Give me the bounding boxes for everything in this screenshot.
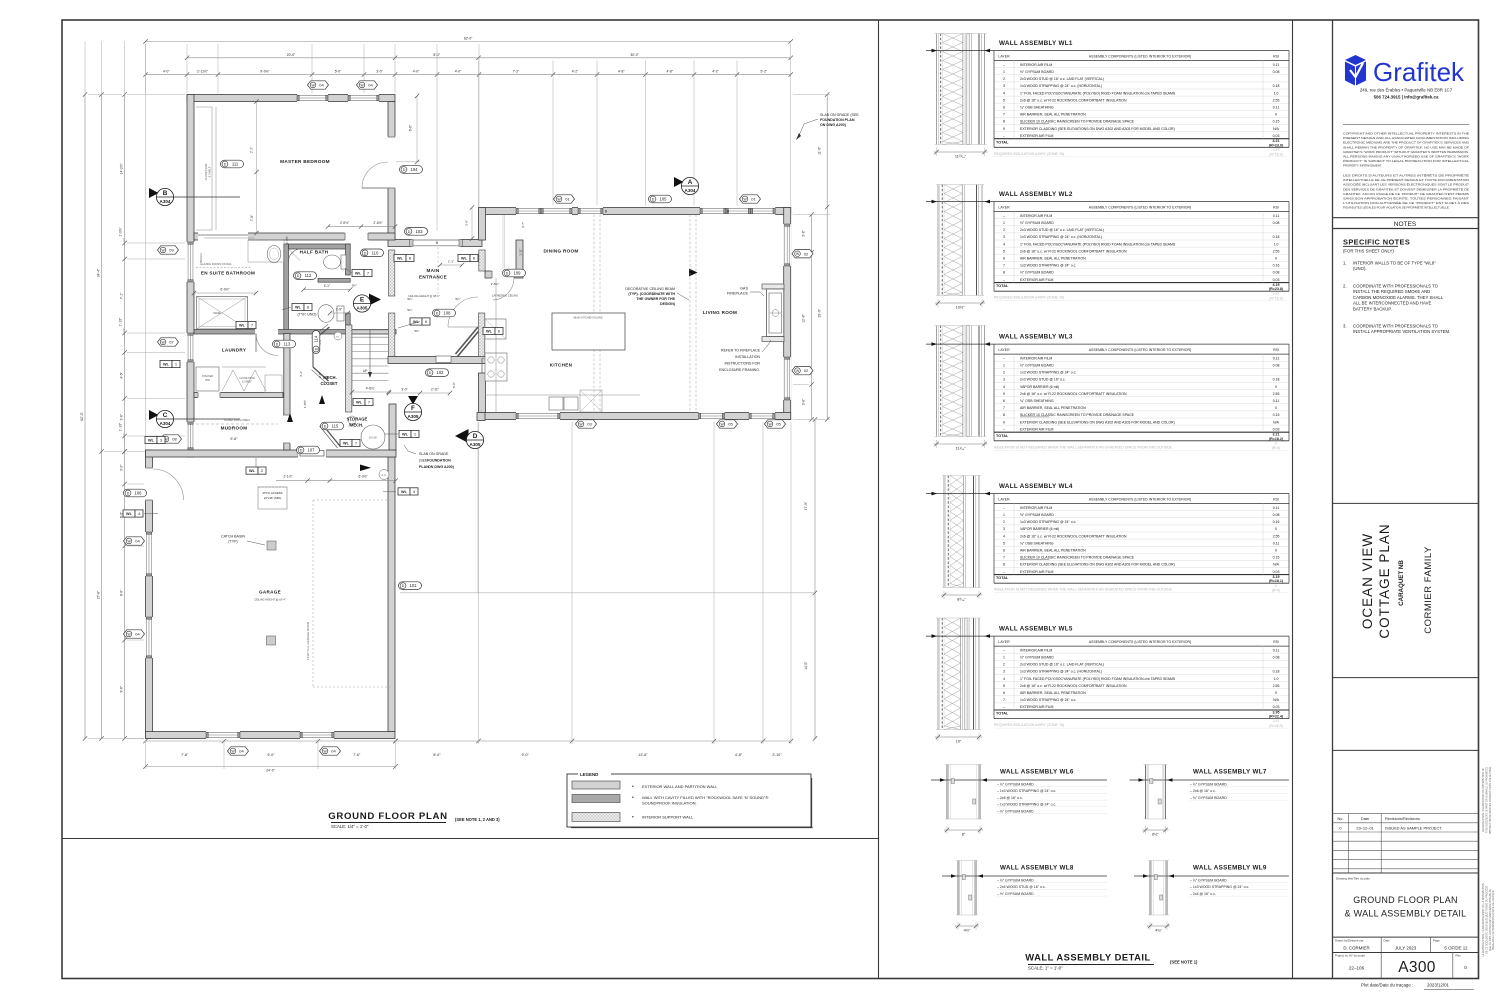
svg-text:ALL PERSONS MAKING ANY UNAUTHO: ALL PERSONS MAKING ANY UNAUTHORIZED USE … (1343, 155, 1469, 159)
sliding glazing door opening (198, 233, 248, 241)
svg-text:– ½" GYPSUM BOARD: – ½" GYPSUM BOARD (997, 879, 1034, 883)
svg-text:7: 7 (1003, 406, 1005, 410)
svg-text:CATCH BASIN: CATCH BASIN (221, 535, 245, 539)
storage bottom wall right portion (389, 404, 396, 450)
right dimension tier 17/14 (814, 420, 816, 739)
svg-text:0.11: 0.11 (1273, 399, 1280, 403)
svg-text:0.18: 0.18 (1273, 235, 1280, 239)
laundry sink (265, 375, 282, 393)
svg-text:9'-0½": 9'-0½" (260, 70, 270, 74)
svg-text:ASSEMBLY COMPONENTS (LISTED IN: ASSEMBLY COMPONENTS (LISTED INTERIOR TO … (1089, 206, 1191, 210)
title block rule above copyright (1343, 124, 1469, 126)
svg-text:4¾": 4¾" (1155, 929, 1162, 933)
svg-text:EXTERIOR AIR FILM: EXTERIOR AIR FILM (1020, 134, 1054, 138)
svg-text:2'-1½": 2'-1½" (283, 475, 292, 479)
svg-text:101: 101 (410, 583, 418, 588)
door tag D114 (312, 331, 320, 354)
svg-text:WALL ASSEMBLY WL3: WALL ASSEMBLY WL3 (999, 334, 1073, 341)
svg-text:6: 6 (1003, 549, 1005, 553)
svg-text:½" GYPSUM BOARD: ½" GYPSUM BOARD (1020, 656, 1054, 660)
svg-text:2x6 @ 16" o.c. w/ R-22 ROCKWOO: 2x6 @ 16" o.c. w/ R-22 ROCKWOOL COMFORTB… (1020, 684, 1127, 688)
svg-text:1: 1 (1003, 513, 1005, 517)
left dimension tier 62ft vertical (84, 95, 86, 739)
svg-text:Date: Date (1384, 938, 1390, 942)
svg-text:P.T.: P.T. (336, 336, 340, 338)
stair right hatched wall (389, 313, 395, 357)
svg-text:ON DWG A200): ON DWG A200) (428, 465, 455, 469)
svg-text:SPECIFIC NOTES: SPECIFIC NOTES (1343, 238, 1410, 247)
svg-text:LAYER: LAYER (998, 55, 1010, 59)
svg-text:D: D (408, 230, 411, 234)
svg-text:17'-0": 17'-0" (804, 501, 808, 510)
kitchen fridge (485, 319, 506, 339)
window tag W04 bottom 2 (320, 747, 341, 755)
svg-text:(TYP, UNO): (TYP, UNO) (298, 313, 317, 317)
svg-text:4: 4 (1003, 677, 1005, 681)
svg-text:INSULATION IS NOT REQUIRED WHE: INSULATION IS NOT REQUIRED WHEN THE WALL… (994, 445, 1173, 449)
wall tag WL7 en suite (236, 321, 248, 328)
svg-text:04: 04 (135, 632, 140, 637)
svg-text:5: 5 (1003, 249, 1005, 253)
svg-text:F: F (411, 405, 415, 412)
svg-text:A: A (688, 179, 693, 186)
svg-text:WL: WL (397, 257, 404, 261)
stair up arrow (369, 330, 371, 376)
mech closet chamfer walls (313, 327, 330, 341)
kitchen counter line (495, 278, 497, 412)
svg-text:1.0: 1.0 (1274, 91, 1279, 95)
svg-text:04: 04 (135, 539, 140, 544)
svg-text:No.: No. (1337, 816, 1343, 821)
svg-text:3: 3 (1003, 235, 1005, 239)
svg-text:ENCLOSURE FRAMING.: ENCLOSURE FRAMING. (719, 368, 760, 372)
svg-text:D.H.W.: D.H.W. (369, 436, 377, 440)
title block section line revisions top (1333, 749, 1479, 751)
svg-text:104: 104 (411, 167, 419, 172)
svg-text:INTERIOR WALLS TO BE OF TYPE ": INTERIOR WALLS TO BE OF TYPE "WL8" (1353, 261, 1436, 266)
svg-text:0.15: 0.15 (1273, 556, 1280, 560)
svg-text:(FOR THIS SHEET ONLY): (FOR THIS SHEET ONLY) (1343, 249, 1394, 254)
window tag W01 right (740, 195, 761, 203)
svg-text:A304: A304 (685, 188, 696, 193)
door tag D115 (321, 422, 344, 430)
svg-text:(R=18.2): (R=18.2) (1269, 437, 1284, 441)
svg-text:ISSUED AS SAMPLE PROJECT: ISSUED AS SAMPLE PROJECT (1385, 825, 1442, 830)
svg-text:INTERIOR AIR FILM: INTERIOR AIR FILM (1020, 63, 1052, 67)
garage left wall (146, 450, 153, 739)
svg-text:2.97: 2.97 (1273, 292, 1280, 296)
svg-text:N/A: N/A (1273, 420, 1280, 424)
gas fireplace (762, 284, 784, 289)
svg-text:CATHEDRAL CEILING: CATHEDRAL CEILING (492, 294, 519, 298)
svg-text:– ½" GYPSUM BOARD: – ½" GYPSUM BOARD (997, 783, 1034, 787)
notes band (1333, 217, 1479, 219)
svg-text:24'-0": 24'-0" (266, 769, 275, 773)
dim mudroom bottom (276, 480, 396, 482)
svg-text:0.08: 0.08 (1273, 364, 1280, 368)
svg-text:CLOSET ROD: CLOSET ROD (204, 163, 208, 180)
window tag W04 left 1 (124, 537, 145, 545)
svg-text:–: – (1003, 356, 1005, 360)
svg-text:0: 0 (1275, 584, 1277, 588)
svg-text:VAPOR BARRIER (6 mil): VAPOR BARRIER (6 mil) (1020, 527, 1059, 531)
svg-text:(R=23.9): (R=23.9) (1269, 143, 1284, 147)
svg-text:0.11: 0.11 (1273, 214, 1280, 218)
wall assembly WL2 section drawing (937, 185, 939, 296)
svg-text:GLAZING DOORS ON RAIL: GLAZING DOORS ON RAIL (200, 263, 232, 266)
svg-text:BATTERY BACKUP.: BATTERY BACKUP. (1353, 306, 1392, 311)
half bath toilet (341, 255, 346, 269)
svg-text:THE OWNER FOR THE: THE OWNER FOR THE (636, 297, 675, 301)
svg-text:103: 103 (416, 229, 424, 234)
wall tag WL4 garage left (123, 510, 135, 517)
door tag D105 (649, 195, 672, 203)
svg-text:TOTAL: TOTAL (996, 434, 1009, 438)
svg-text:(R=23.8): (R=23.8) (1269, 287, 1284, 291)
svg-text:(R=16.9): (R=16.9) (1269, 153, 1282, 157)
dining closet right wall (516, 240, 523, 271)
svg-text:WALL ASSEMBLY WL4: WALL ASSEMBLY WL4 (999, 483, 1073, 490)
en suite tub 60x36 (197, 297, 248, 330)
svg-text:2x6 @ 16" o.c. w/ R-22 ROCKWOO: 2x6 @ 16" o.c. w/ R-22 ROCKWOOL COMFORTB… (1020, 98, 1127, 102)
svg-text:03: 03 (587, 422, 592, 427)
door D107 opening mudroom (298, 450, 327, 458)
window W03 kitchen sink (516, 412, 560, 420)
svg-text:0.03: 0.03 (1273, 570, 1280, 574)
svg-text:RSI: RSI (1273, 498, 1279, 502)
svg-text:1x3 WOOD STRAPPING @ 24" o.c.: 1x3 WOOD STRAPPING @ 24" o.c. (1020, 698, 1076, 702)
wall tag WL6 stairs (410, 318, 422, 325)
svg-text:PRÉALABLE L’AUTORISATION ÉCRIT: PRÉALABLE L’AUTORISATION ÉCRITE DE L’AUT… (1492, 889, 1495, 950)
svg-text:STACKED: STACKED (202, 375, 214, 378)
svg-text:04: 04 (239, 749, 244, 754)
garage window W04 bottom 2 (300, 731, 334, 739)
svg-text:WL: WL (486, 330, 493, 334)
svg-text:0.18: 0.18 (1273, 84, 1280, 88)
svg-text:GARAGE: GARAGE (259, 590, 281, 595)
svg-text:(SEE NOTE 1): (SEE NOTE 1) (1170, 960, 1198, 965)
svg-text:0.11: 0.11 (1273, 648, 1280, 652)
svg-text:ASSEMBLY COMPONENTS (LISTED IN: ASSEMBLY COMPONENTS (LISTED INTERIOR TO … (1089, 640, 1191, 644)
svg-text:EXTERIOR CLADDING (SEE ELEVATI: EXTERIOR CLADDING (SEE ELEVATIONS ON DWG… (1020, 563, 1175, 567)
svg-text:CORMIER FAMILY: CORMIER FAMILY (1423, 546, 1434, 634)
svg-text:Date: Date (1361, 816, 1369, 821)
svg-text:13'-6": 13'-6" (638, 753, 648, 757)
svg-text:½" GYPSUM BOARD: ½" GYPSUM BOARD (1020, 70, 1054, 74)
master closet shelves (211, 107, 213, 230)
window tag W01 left (554, 195, 575, 203)
svg-text:0: 0 (1275, 527, 1277, 531)
svg-text:2.55: 2.55 (1273, 392, 1280, 396)
svg-text:(R=18.1): (R=18.1) (1269, 579, 1284, 583)
svg-text:REQUIRED INSULATION w/HRV (ZON: REQUIRED INSULATION w/HRV (ZONE 7A) (994, 723, 1064, 727)
svg-text:WL: WL (356, 401, 363, 405)
svg-text:6'-6": 6'-6" (409, 124, 413, 131)
svg-text:1'-3⅝": 1'-3⅝" (119, 227, 123, 237)
svg-text:EXTERIOR AIR FILM: EXTERIOR AIR FILM (1020, 570, 1054, 574)
svg-text:CEILING HEIGHT @ ±9'-4": CEILING HEIGHT @ ±9'-4" (254, 598, 286, 602)
svg-text:CEILING HEIGHT @ 68'-0": CEILING HEIGHT @ 68'-0" (408, 294, 440, 298)
svg-text:1'-5¾": 1'-5¾" (491, 282, 499, 286)
half bath right wall dark (346, 244, 351, 275)
svg-text:D: D (127, 492, 130, 496)
svg-text:0.08: 0.08 (1273, 271, 1280, 275)
svg-text:RSI: RSI (1273, 206, 1279, 210)
svg-text:(R=16.9): (R=16.9) (1269, 724, 1282, 728)
svg-text:LAYER: LAYER (998, 206, 1010, 210)
svg-text:0.15: 0.15 (1273, 120, 1280, 124)
svg-text:INSTALL APPROPRIATE VENTILATIO: INSTALL APPROPRIATE VENTILATION SYSTEM. (1353, 329, 1450, 334)
half bath top wall dark (289, 244, 351, 249)
svg-text:EXTERIOR CLADDING (SEE ELEVATI: EXTERIOR CLADDING (SEE ELEVATIONS ON DWG… (1020, 420, 1175, 424)
svg-text:0.08: 0.08 (1273, 221, 1280, 225)
svg-text:– 2x6 @ 16" o.c.: – 2x6 @ 16" o.c. (997, 796, 1023, 800)
svg-text:106: 106 (135, 491, 143, 496)
svg-text:2.55: 2.55 (1273, 534, 1280, 538)
revisions table (1333, 813, 1479, 815)
svg-text:WL: WL (126, 512, 133, 516)
svg-text:INTERIOR AIR FILM: INTERIOR AIR FILM (1020, 648, 1052, 652)
svg-text:62'-0": 62'-0" (464, 37, 473, 41)
svg-text:PROPERTY INFRINGEMENT.: PROPERTY INFRINGEMENT. (1343, 164, 1382, 168)
svg-text:D: D (473, 433, 478, 440)
svg-text:•: • (632, 784, 634, 790)
svg-text:107: 107 (308, 448, 316, 453)
svg-text:0: 0 (1275, 406, 1277, 410)
entrance top wall west segment (388, 240, 411, 247)
svg-text:B: B (163, 190, 168, 197)
door tag D103 (405, 228, 428, 236)
svg-text:3: 3 (1003, 378, 1005, 382)
stair hatched wall (346, 325, 352, 412)
drawn by box (1333, 936, 1479, 938)
svg-text:(R=0): (R=0) (1272, 588, 1281, 592)
svg-text:Project no./N° du projet: Project no./N° du projet (1335, 954, 1365, 958)
svg-text:DESIGN): DESIGN) (660, 302, 676, 306)
svg-text:2: 2 (1003, 520, 1005, 524)
svg-text:GRAFITEK'S “WORK PRODUCT” WITH: GRAFITEK'S “WORK PRODUCT” WITHOUT GRAFIT… (1343, 150, 1469, 154)
window W08 left wall (187, 422, 195, 450)
svg-text:EXTERIOR CLADDING (SEE ELEVATI: EXTERIOR CLADDING (SEE ELEVATIONS ON DWG… (1020, 127, 1175, 131)
svg-text:3'-0": 3'-0" (465, 220, 469, 226)
left dimension tier garage side (124, 452, 126, 739)
catch basin square 2 (267, 636, 276, 645)
svg-text:EXTERIOR AIR FILM: EXTERIOR AIR FILM (1020, 705, 1054, 709)
svg-text:SANS SON APPROBATION ÉCRITE. T: SANS SON APPROBATION ÉCRITE. TOUTES PERS… (1343, 196, 1469, 201)
svg-text:RSI: RSI (1273, 55, 1279, 59)
svg-text:LAUNDRY: LAUNDRY (222, 348, 246, 353)
svg-text:N/A: N/A (1273, 698, 1280, 702)
wall assembly WL4 section drawing (943, 476, 945, 588)
svg-text:Drawn by/Dessiné par: Drawn by/Dessiné par (1335, 938, 1363, 942)
svg-text:SLICKER 10 CLASSIC RAINSCREEN: SLICKER 10 CLASSIC RAINSCREEN TO PROVIDE… (1020, 413, 1135, 417)
svg-text:Plot date/Date du traçage :: Plot date/Date du traçage : (1361, 983, 1413, 988)
svg-text:–: – (1003, 214, 1005, 218)
svg-text:115: 115 (332, 424, 339, 429)
windows W01 left group (516, 207, 541, 215)
svg-text:5'-0": 5'-0" (335, 70, 342, 74)
svg-text:2'-10": 2'-10" (772, 753, 782, 757)
svg-text:3: 3 (1003, 670, 1005, 674)
kitchen sink (549, 397, 563, 410)
svg-text:1'-10": 1'-10" (119, 422, 123, 431)
svg-text:AIR BARRIER, SEAL ALL PENETRAT: AIR BARRIER, SEAL ALL PENETRATION (1020, 406, 1086, 410)
svg-text:ASSEMBLY COMPONENTS (LISTED IN: ASSEMBLY COMPONENTS (LISTED INTERIOR TO … (1089, 498, 1191, 502)
svg-text:EXTERIOR AIR FILM: EXTERIOR AIR FILM (1020, 427, 1054, 431)
svg-text:½" GYPSUM BOARD: ½" GYPSUM BOARD (1020, 364, 1054, 368)
entry west wall hatched (389, 250, 395, 296)
svg-text:ENTRANCE: ENTRANCE (419, 275, 447, 280)
svg-text:AIR BARRIER, SEAL ALL PENETRAT: AIR BARRIER, SEAL ALL PENETRATION (1020, 257, 1086, 261)
svg-text:WL: WL (402, 433, 409, 437)
svg-text:A305: A305 (357, 306, 368, 311)
svg-text:¾" OSB SHEATHING: ¾" OSB SHEATHING (1020, 541, 1054, 545)
svg-text:– 2x4 WOOD STUD @ 16" o.c.: – 2x4 WOOD STUD @ 16" o.c. (997, 885, 1046, 889)
svg-text:–: – (1003, 648, 1005, 652)
svg-text:LAYER: LAYER (998, 348, 1010, 352)
svg-text:0.11: 0.11 (1273, 541, 1280, 545)
svg-text:C.X.: C.X. (382, 474, 387, 477)
svg-text:6'-0½": 6'-0½" (220, 288, 229, 292)
svg-text:INTELLECTUELLE DE CE PRÉSENT D: INTELLECTUELLE DE CE PRÉSENT DESIGN ET T… (1343, 177, 1469, 182)
window tag W05 1 (717, 420, 738, 428)
svg-text:3: 3 (1003, 527, 1005, 531)
svg-text:5'-0": 5'-0" (452, 382, 456, 388)
cx circle (379, 470, 389, 480)
svg-text:NOTES: NOTES (1394, 221, 1417, 228)
svg-text:9'-6": 9'-6" (120, 685, 124, 692)
plan area bottom strip line (62, 838, 878, 840)
svg-text:Rev.: Rev. (1456, 954, 1462, 958)
svg-text:1: 1 (1003, 70, 1005, 74)
master suite right wall (388, 102, 395, 241)
svg-text:– 2x4 @ 16" o.c.: – 2x4 @ 16" o.c. (1190, 892, 1216, 896)
svg-text:LIVING ROOM: LIVING ROOM (703, 310, 737, 315)
svg-text:5'-2": 5'-2" (761, 70, 768, 74)
svg-text:4'-8": 4'-8" (618, 70, 625, 74)
svg-text:0.18: 0.18 (1273, 670, 1280, 674)
svg-text:WALL ASSEMBLY WL1: WALL ASSEMBLY WL1 (999, 40, 1073, 47)
wall tag WL7 half bath (352, 269, 364, 276)
top dimension tier 62ft (146, 41, 791, 43)
svg-text:5: 5 (1003, 684, 1005, 688)
svg-text:AIR BARRIER, SEAL ALL PENETRAT: AIR BARRIER, SEAL ALL PENETRATION (1020, 691, 1086, 695)
svg-text:1'-11": 1'-11" (519, 248, 523, 255)
svg-text:4'-2": 4'-2" (572, 70, 579, 74)
title block section line ocean view top (1333, 502, 1479, 504)
svg-text:(TYP). (COORDINATE WITH: (TYP). (COORDINATE WITH (628, 292, 675, 296)
half bath corner shower (289, 249, 302, 262)
svg-text:1x3 WOOD STRAPPING @ 24" o.c.: 1x3 WOOD STRAPPING @ 24" o.c. (HORIZONTA… (1020, 670, 1102, 674)
window tag W03 (576, 420, 597, 428)
svg-text:0.18: 0.18 (1273, 378, 1280, 382)
svg-text:14'-2½": 14'-2½" (120, 162, 124, 174)
en suite vanity (248, 240, 284, 262)
svg-text:D: D (652, 198, 655, 202)
svg-text:2: 2 (1003, 77, 1005, 81)
svg-text:– 1x3 WOOD STRAPPING @ 24" o.: – 1x3 WOOD STRAPPING @ 24" o.c. (997, 803, 1056, 807)
svg-text:2.97: 2.97 (1273, 719, 1280, 723)
window W04 top-left (297, 94, 328, 102)
svg-text:4'-0": 4'-0" (163, 70, 170, 74)
svg-text:0.11: 0.11 (1273, 356, 1280, 360)
svg-text:0.03: 0.03 (1273, 278, 1280, 282)
living block right wall (784, 208, 791, 420)
svg-text:7: 7 (1003, 698, 1005, 702)
svg-text:TOTAL: TOTAL (996, 712, 1009, 716)
garage door dashed outline (312, 500, 314, 687)
svg-text:EXTERIOR AIR FILM: EXTERIOR AIR FILM (1020, 278, 1054, 282)
svg-text:7'-6": 7'-6" (181, 753, 189, 757)
svg-text:108: 108 (444, 311, 452, 316)
window W09 left wall (187, 242, 195, 282)
attic access dashed box (258, 487, 287, 509)
svg-text:AIR BARRIER, SEAL ALL PENETRAT: AIR BARRIER, SEAL ALL PENETRATION (1020, 113, 1086, 117)
svg-text:–: – (1003, 134, 1005, 138)
svg-text:09: 09 (169, 248, 174, 253)
section marker C A304 (149, 410, 159, 420)
door tag D101 (399, 582, 422, 590)
legend box (567, 774, 811, 827)
svg-text:0.03: 0.03 (1273, 705, 1280, 709)
svg-text:CLOSET: CLOSET (321, 381, 338, 386)
svg-text:8⁹⁄₁₆": 8⁹⁄₁₆" (957, 598, 966, 602)
legend swatch soundproof wall (572, 795, 620, 803)
laundry closet shelves (222, 370, 244, 391)
left dimension tier 34-4 / 27-8 (101, 95, 103, 739)
svg-text:ON DWG A200): ON DWG A200) (820, 123, 847, 127)
svg-text:INSULATION IS NOT REQUIRED WHE: INSULATION IS NOT REQUIRED WHEN THE WALL… (994, 588, 1173, 592)
beam dashed lines 1 (593, 215, 595, 413)
svg-text:Page: Page (1433, 938, 1440, 942)
svg-text:DES SERVICES DE GRAFITEK ET DO: DES SERVICES DE GRAFITEK ET DOIVENT DEME… (1343, 186, 1469, 191)
svg-text:POURSUITES LÉGALES POUR VIOLAT: POURSUITES LÉGALES POUR VIOLATION DE PRO… (1343, 205, 1450, 210)
svg-text:3'-0": 3'-0" (376, 70, 383, 74)
svg-text:WL: WL (461, 257, 468, 261)
svg-text:N/A: N/A (1273, 127, 1280, 131)
svg-text:0: 0 (1275, 113, 1277, 117)
svg-text:RSI: RSI (1273, 348, 1279, 352)
svg-text:16'x8' O.H. GARAGE DOOR: 16'x8' O.H. GARAGE DOOR (306, 621, 310, 660)
divider assembly/title column (1292, 20, 1294, 979)
svg-text:A305: A305 (470, 442, 481, 447)
svg-text:14'-0": 14'-0" (804, 661, 808, 670)
wall assembly WL3 section drawing (936, 326, 938, 437)
windows W05 living (699, 412, 725, 420)
svg-text:23–12–01: 23–12–01 (1356, 825, 1373, 830)
svg-text:–: – (1003, 506, 1005, 510)
garage top wall / mudroom storage bottom wall (146, 450, 397, 457)
svg-text:27'-8": 27'-8" (97, 590, 101, 599)
svg-text:0: 0 (1275, 257, 1277, 261)
svg-text:½" GYPSUM BOARD: ½" GYPSUM BOARD (1020, 271, 1054, 275)
door tag D111 (221, 160, 244, 168)
svg-text:11¹³⁄₁₆": 11¹³⁄₁₆" (955, 155, 967, 159)
svg-text:0.15: 0.15 (1273, 413, 1280, 417)
door tag D104 (400, 166, 423, 174)
svg-text:1'-8½": 1'-8½" (303, 400, 307, 408)
svg-text:2x3 WOOD STUD @ 16" o.c. LAID: 2x3 WOOD STUD @ 16" o.c. LAID FLAT (VERT… (1020, 663, 1104, 667)
entry porch column (477, 413, 485, 421)
svg-text:2x6 @ 16" o.c. w/ R-22 ROCKWOO: 2x6 @ 16" o.c. w/ R-22 ROCKWOOL COMFORTB… (1020, 249, 1127, 253)
svg-text:4'-8": 4'-8" (735, 753, 743, 757)
svg-text:JULY 2023: JULY 2023 (1395, 946, 1417, 951)
svg-text:SCALE: 1" = 1'-0": SCALE: 1" = 1'-0" (1028, 966, 1063, 971)
svg-text:5: 5 (1003, 392, 1005, 396)
svg-text:1.0: 1.0 (1274, 242, 1279, 246)
svg-text:0.16: 0.16 (1273, 264, 1280, 268)
svg-text:¾" OSB SHEATHING: ¾" OSB SHEATHING (1020, 106, 1054, 110)
